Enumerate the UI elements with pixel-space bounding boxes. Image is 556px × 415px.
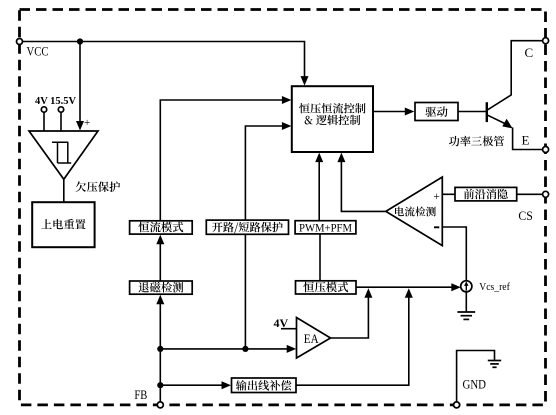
terminal GND [454, 402, 460, 408]
svg-text:Vcs_ref: Vcs_ref [479, 281, 510, 293]
svg-text:+: + [84, 117, 90, 129]
node EA input junction [242, 346, 248, 352]
svg-text:CS: CS [518, 208, 533, 223]
block 开路/短路保护 (open/short protection) [206, 220, 288, 234]
wire 4V input [43, 112, 45, 131]
wire drive to transistor base [458, 111, 486, 113]
label 恒压模式 [303, 282, 348, 293]
wire PWM+PFM to logic box [318, 159, 320, 221]
node FB junction lower [157, 382, 163, 388]
ground below Vcs_ref [457, 311, 475, 313]
label 驱动 [426, 106, 448, 117]
block 驱动 (drive) [415, 103, 458, 121]
block PWM+PFM [295, 221, 356, 234]
label 输出线补偿 [236, 380, 292, 391]
block 前沿消隐 (leading edge blanking) [455, 187, 517, 201]
wire UVLO to power-on reset [63, 179, 65, 202]
wire FB to demag [159, 302, 161, 405]
wire line compensation to CV line [296, 295, 409, 385]
wire CC-mode to logic box [160, 100, 284, 221]
wire - input to Vcs_ref [442, 227, 466, 281]
block 输出线补偿 (output line compensation) [232, 378, 297, 393]
node FB junction upper [157, 346, 163, 352]
source Vcs_ref (current source symbol) [461, 281, 472, 292]
transistor Q1 emitter [487, 115, 508, 125]
label 恒压恒流控制 [299, 103, 365, 114]
op-amp UVLO comparator (undervoltage) [29, 131, 98, 179]
block 恒压恒流控制 & 逻辑控制 (CV/CC control & logic) [292, 86, 373, 152]
wire blanking to CS [517, 193, 543, 195]
op-amp 电流检测 (current sense comparator) [386, 177, 443, 246]
svg-text:GND: GND [463, 377, 487, 391]
svg-text:4V 15.5V: 4V 15.5V [35, 95, 76, 107]
label 退磁检测 [139, 282, 184, 293]
wire CV-mode to Vcs_ref [356, 286, 454, 288]
wire open-short protection to logic box [245, 126, 284, 220]
hysteresis symbol [52, 141, 68, 143]
wire FB to EA inverting input [160, 348, 289, 350]
block 退磁检测 (demagnetization detect) [130, 281, 193, 294]
svg-text:4V: 4V [274, 316, 289, 330]
wire logic box to drive [373, 111, 407, 113]
transistor Q1 collector [487, 41, 543, 111]
svg-text:FB: FB [134, 388, 147, 402]
label 欠压保护 [76, 181, 121, 192]
wire demag to CC-mode [159, 242, 161, 281]
wire 15.5V input [60, 112, 62, 131]
wire VCC rail to logic box [20, 42, 305, 79]
block 恒流模式 (CC mode) [130, 221, 193, 234]
pin 15.5V input circle [58, 107, 63, 112]
svg-text:EA: EA [304, 332, 319, 346]
transistor Q1 base bar [486, 102, 488, 122]
label 开路/短路保护 [212, 222, 283, 234]
svg-text:VCC: VCC [27, 45, 49, 59]
svg-text:+: + [433, 191, 440, 203]
wire FB to line compensation [160, 384, 224, 386]
label - input [434, 226, 439, 228]
label 功率三极管 (power transistor) [449, 136, 504, 147]
op-amp EA error amplifier [297, 318, 331, 359]
terminal E [543, 147, 549, 153]
terminal C [543, 38, 549, 44]
wire PWM+PFM to CV-mode [319, 234, 321, 281]
label 电流检测 [395, 207, 436, 217]
label 前沿消隐 [464, 189, 508, 200]
wire current sense out to logic box [341, 159, 385, 211]
wire 4V to EA [281, 328, 297, 330]
wire Vcs_ref to ground [465, 292, 467, 312]
wire VCC to UVLO comparator + [79, 42, 81, 123]
svg-text:C: C [525, 45, 534, 60]
ground symbol near GND [488, 360, 501, 362]
terminal VCC [17, 39, 23, 45]
label 上电重置 [41, 219, 85, 229]
block 恒压模式 (CV mode) [296, 281, 357, 294]
wire GND to ground symbol [457, 351, 495, 402]
svg-text:PWM+PFM: PWM+PFM [299, 220, 352, 234]
label 恒流模式 [138, 222, 183, 233]
terminal FB [157, 402, 163, 408]
wire EA output to CV line [331, 295, 369, 338]
block 上电重置 (power-on reset) [32, 202, 94, 247]
wire + input to blanking [442, 193, 455, 195]
pin 4V input circle [41, 107, 46, 112]
svg-text:E: E [522, 133, 530, 148]
label & 逻辑控制 [305, 115, 361, 126]
node VCC junction [77, 38, 83, 44]
wire open-short protection down to EA input [244, 234, 246, 349]
terminal CS [543, 191, 549, 197]
